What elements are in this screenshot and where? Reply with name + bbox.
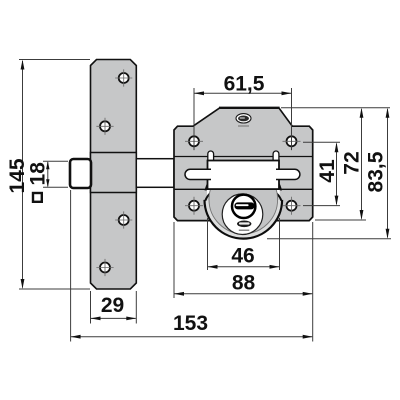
svg-text:72: 72 [341,151,364,174]
svg-text:61,5: 61,5 [224,73,265,96]
svg-text:18: 18 [26,162,49,186]
svg-text:29: 29 [101,294,124,317]
svg-text:46: 46 [231,245,254,268]
svg-text:153: 153 [173,312,208,335]
svg-text:88: 88 [232,271,256,294]
svg-text:41: 41 [316,159,339,183]
svg-text:83,5: 83,5 [365,151,388,192]
